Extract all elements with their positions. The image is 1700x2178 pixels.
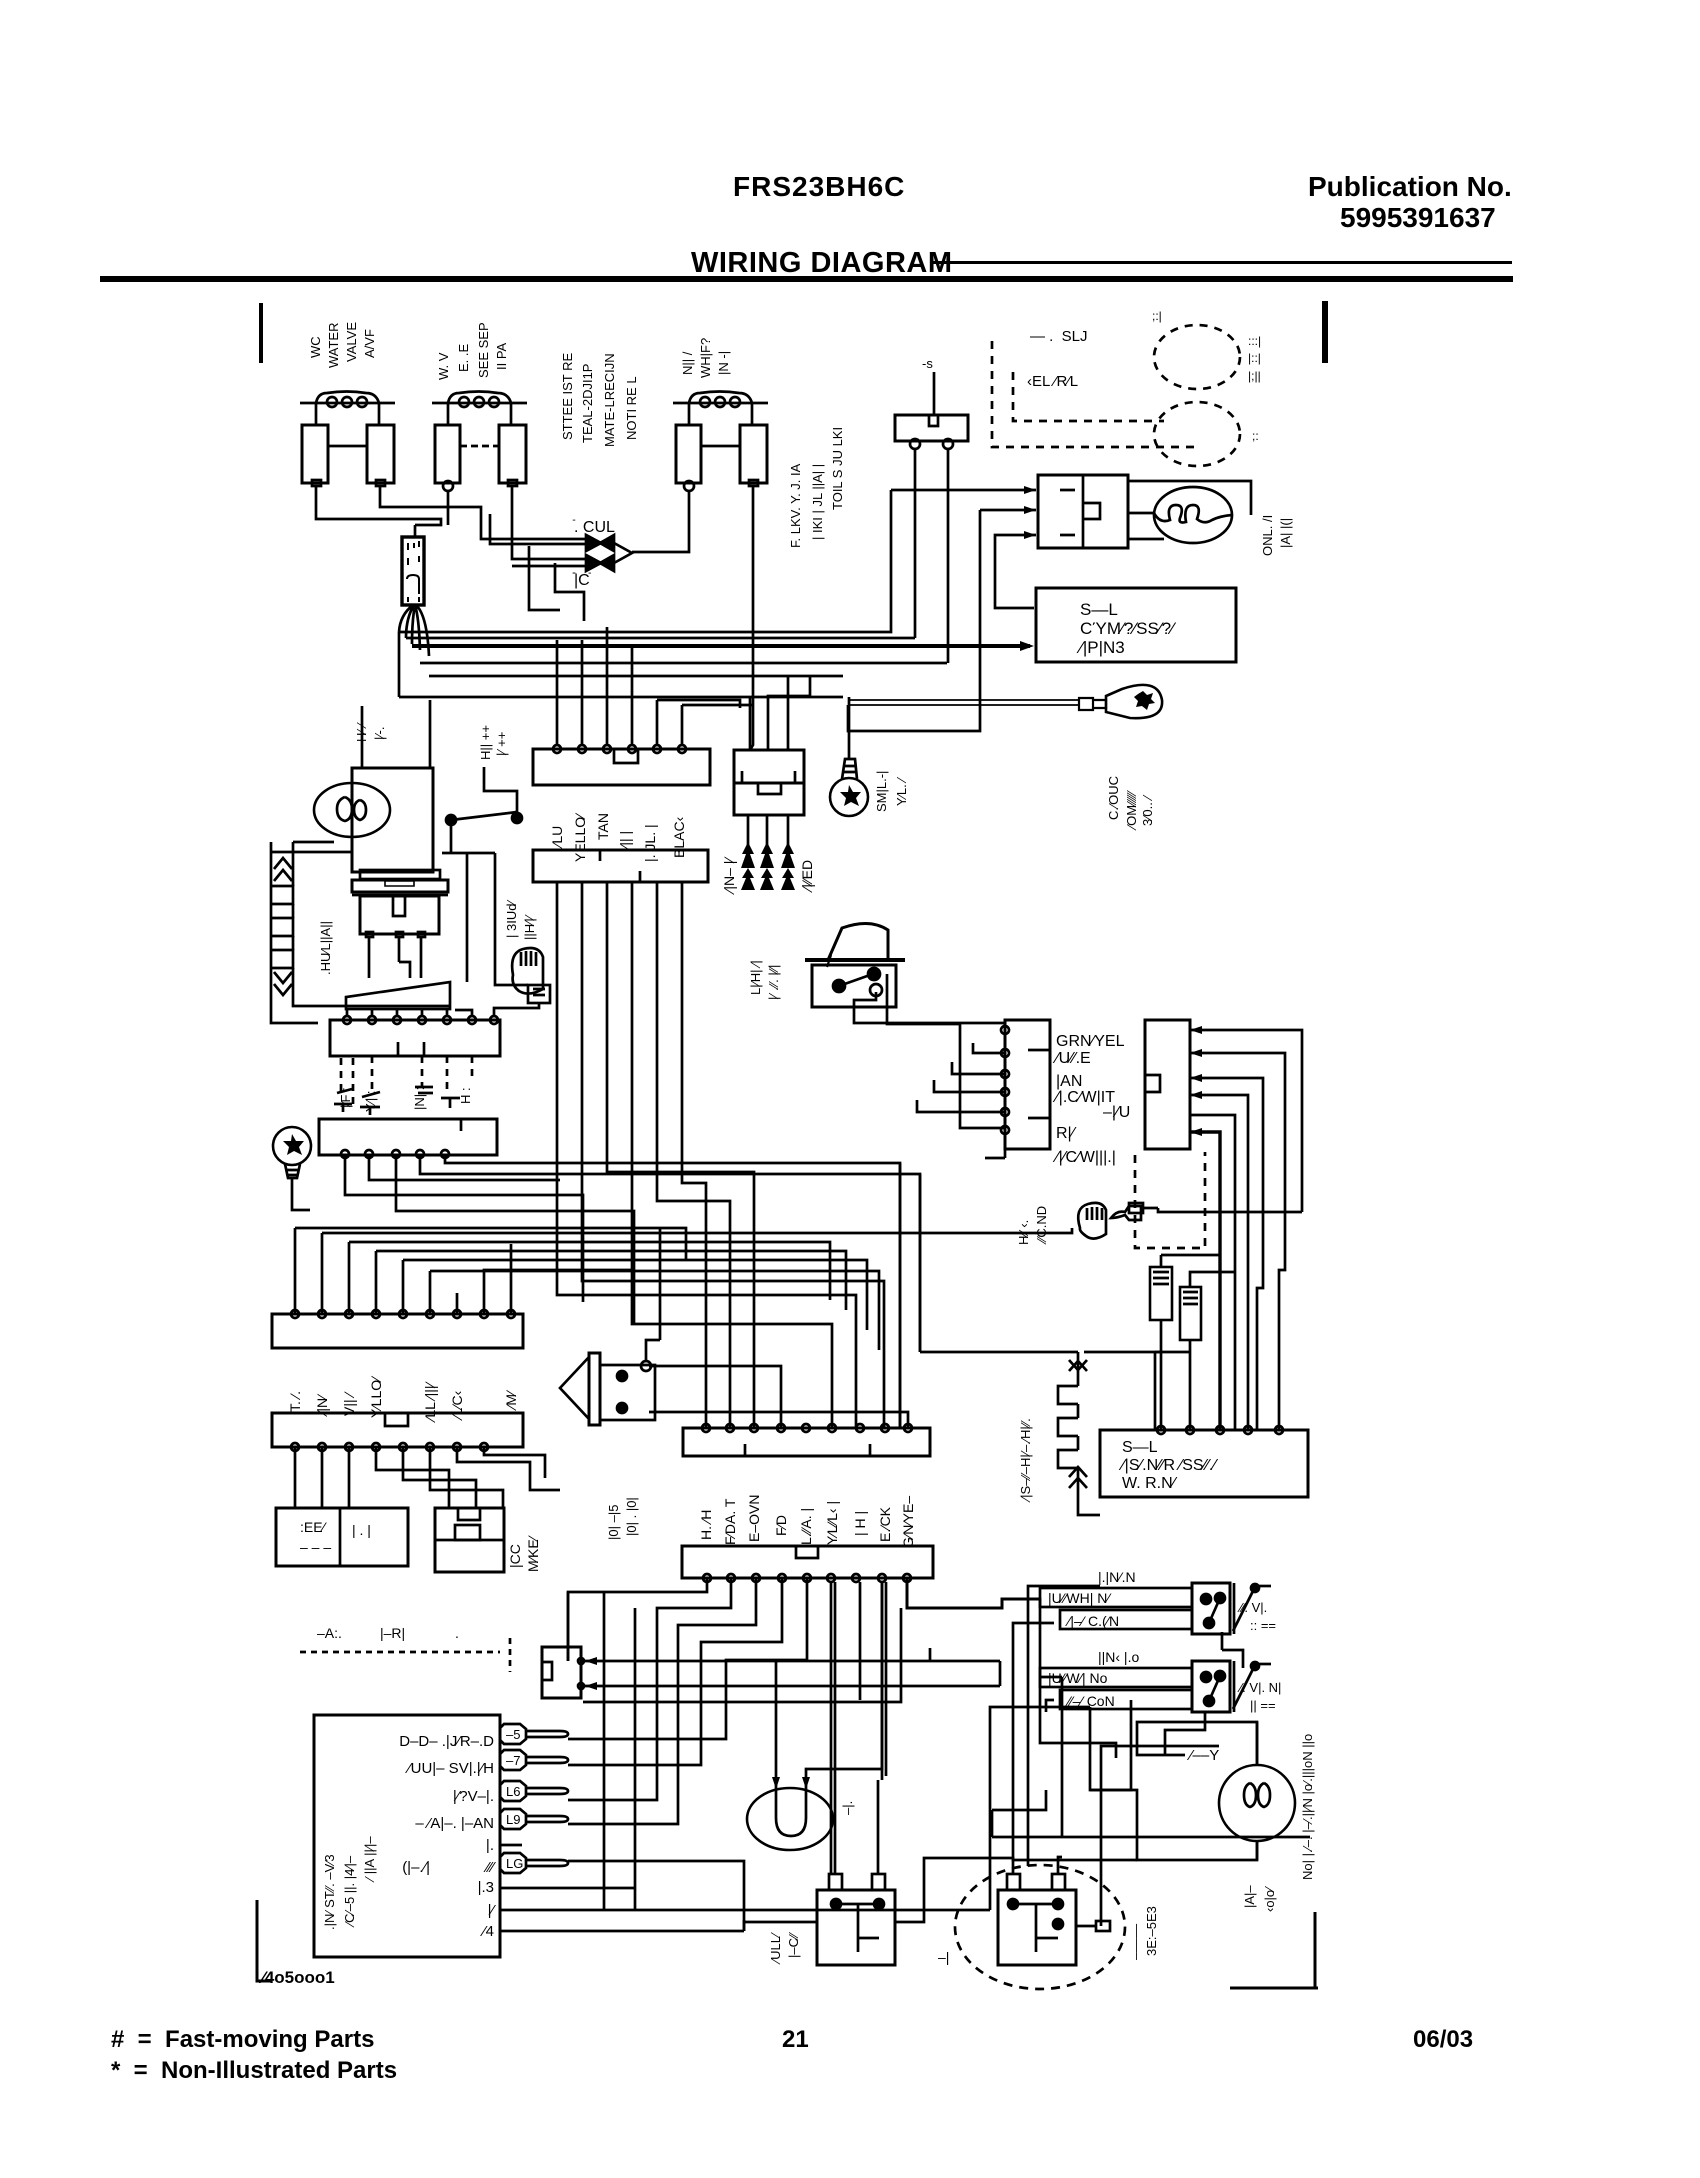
water valve WV2 label bbox=[436, 322, 509, 380]
ice maker wedge to connector bbox=[346, 982, 450, 1009]
svg-text:⁄LU: ⁄LU bbox=[549, 826, 565, 849]
wires into bar3 from mechanism bbox=[347, 1003, 539, 1016]
svg-text:|U⁄⁄WH| N⁄: |U⁄⁄WH| N⁄ bbox=[1048, 1590, 1112, 1606]
svg-text:||H⁄|⁄: ||H⁄|⁄ bbox=[522, 914, 537, 940]
svg-text:‹о|о⁄: ‹о|о⁄ bbox=[1262, 1886, 1277, 1912]
dispenser box top pins bbox=[1157, 1426, 1283, 1434]
svg-text:;:: ;: bbox=[1252, 429, 1259, 443]
svg-text:06/03: 06/03 bbox=[1413, 2026, 1473, 2053]
ground arrows below connector bbox=[741, 815, 795, 890]
harness ground connector MMM 2 bbox=[1078, 1203, 1143, 1239]
grounded 3-pin connector bbox=[734, 676, 810, 815]
rocker switch rotated label bbox=[748, 960, 781, 1000]
dispenser switch assembly 1 labels bbox=[1048, 1569, 1136, 1629]
svg-text:C.⁄OUC: C.⁄OUC bbox=[1106, 776, 1121, 820]
svg-text:.: . bbox=[455, 1625, 459, 1641]
bar5 top pins bbox=[291, 1310, 515, 1318]
see dispenser assembly wiring box bbox=[1100, 1430, 1308, 1497]
bar3 top pins bbox=[343, 1016, 498, 1024]
svg-text:|⁄ ++: |⁄ ++ bbox=[494, 732, 509, 756]
bar7 rotated wire labels bbox=[698, 1495, 916, 1548]
main connector bar 2 bbox=[533, 850, 708, 882]
svg-text:|⁄: |⁄ bbox=[487, 1902, 496, 1919]
svg-text:NOTI RE L: NOTI RE L bbox=[624, 376, 639, 440]
svg-text:–|: –| bbox=[938, 1949, 949, 1965]
wire bar1 pin5 up right bbox=[657, 700, 740, 708]
wires switch rows left ends down bbox=[1013, 1623, 1137, 1860]
dashed harness outline below box B bbox=[1135, 1152, 1205, 1248]
water valve WV3 body bbox=[676, 425, 767, 491]
svg-text:TOIL S JU LKI: TOIL S JU LKI bbox=[830, 427, 845, 510]
wire bar8 pin4 staircase to F7 spade bbox=[583, 1578, 782, 1765]
svg-text:— . SLJ: — . SLJ bbox=[1030, 328, 1088, 345]
long wire under switches bbox=[992, 1790, 1310, 1837]
arrow compressor pin bbox=[1020, 641, 1034, 651]
wire s-box pin1 drop bbox=[914, 449, 917, 638]
corner mark top-right bbox=[1322, 301, 1328, 363]
svg-text:FRS23BH6C: FRS23BH6C bbox=[733, 171, 905, 202]
dispenser switch 2 box bbox=[1192, 1661, 1271, 1712]
relay right lug wire to lamp bbox=[1076, 1746, 1219, 1926]
spade terminal LG bbox=[500, 1853, 568, 1873]
svg-text:D–D– .|J⁄R–.D: D–D– .|J⁄R–.D bbox=[399, 1733, 494, 1750]
svg-text:.HU⁄L||A||: .HU⁄L||A|| bbox=[318, 921, 333, 975]
svg-text:ֿ|ֿCֿ: ֿ|ֿCֿ bbox=[572, 572, 592, 589]
ice maker mechanism plates bbox=[352, 870, 448, 937]
svg-text:BLAC‹: BLAC‹ bbox=[671, 816, 687, 858]
dashed marks under fan label bbox=[300, 1638, 510, 1672]
bar6 bottom pins bbox=[291, 1443, 488, 1451]
relay lug bbox=[1096, 1921, 1110, 1931]
diode D1 bbox=[586, 535, 614, 551]
svg-text:F. LKV. Y. J. IA: F. LKV. Y. J. IA bbox=[788, 463, 803, 548]
wire relay pin3 to compressor box bbox=[995, 535, 1036, 608]
water valve WV3 coil bbox=[673, 392, 768, 426]
svg-text:|0| –|5: |0| –|5 bbox=[606, 1505, 621, 1540]
extra staircase wires bbox=[583, 1592, 901, 1910]
svg-text:CΎM⁄?⁄SS⁄?⁄: CΎM⁄?⁄SS⁄?⁄ bbox=[1080, 619, 1177, 638]
svg-text:⁄|⁄⁄ED: ⁄|⁄⁄ED bbox=[799, 860, 815, 893]
dispenser switch assembly 2 bars bbox=[1040, 1668, 1192, 1709]
svg-text:–5: –5 bbox=[506, 1727, 520, 1742]
wire MMM2 to bus bbox=[1143, 1208, 1302, 1212]
svg-text:(|–.⁄|: (|–.⁄| bbox=[402, 1859, 430, 1876]
svg-text::: ==: :: == bbox=[1250, 1618, 1276, 1633]
freezer lamp housing bbox=[352, 768, 433, 872]
svg-text:⁄|N– |⁄: ⁄|N– |⁄ bbox=[721, 856, 737, 895]
splice fan-out curves bbox=[399, 605, 429, 656]
svg-text:⁄|–⁄ C.(⁄N: ⁄|–⁄ C.(⁄N bbox=[1065, 1613, 1119, 1629]
svg-text:|;||: |;|| bbox=[1248, 369, 1261, 383]
door switch bbox=[442, 767, 528, 985]
small interconnect box (fan) bbox=[542, 1647, 584, 1698]
wires rocker switch to connector A bbox=[854, 992, 1005, 1023]
dashed oval loop 2 bbox=[1154, 402, 1240, 466]
svg-text:| IKI | JL ||A| |: | IKI | JL ||A| | bbox=[810, 464, 825, 540]
svg-text:TEAL-2DJI1P: TEAL-2DJI1P bbox=[580, 364, 595, 443]
svg-text:MATE-LRECIJN: MATE-LRECIJN bbox=[602, 353, 617, 447]
svg-text:⁄|⁄C⁄W|||.|: ⁄|⁄C⁄W|||.| bbox=[1052, 1149, 1116, 1166]
see door wiring box bbox=[276, 1508, 408, 1566]
wire heater top from bus bbox=[1035, 1351, 1078, 1354]
svg-text:– ⁄A|–. |–AN: – ⁄A|–. |–AN bbox=[415, 1815, 494, 1832]
bar8 bottom pins bbox=[703, 1574, 911, 1582]
timer plain terminals bbox=[500, 1845, 990, 1931]
ice maker rotated label bbox=[507, 1534, 541, 1572]
corner mark bottom-right bbox=[1230, 1912, 1318, 1988]
svg-text:L|⁄H| ⁄|: L|⁄H| ⁄| bbox=[748, 960, 763, 995]
wire valve2 left pin down bbox=[447, 491, 450, 525]
switch 1 dashed label bbox=[1237, 1600, 1276, 1633]
splice block (dashed inner) bbox=[402, 537, 424, 605]
wire screw lamp riser bbox=[848, 697, 851, 759]
svg-text:|⁄?V–|.: |⁄?V–|. bbox=[453, 1788, 494, 1805]
connector bar 3 (ice maker harness) bbox=[330, 1020, 500, 1056]
wire from switch1 box bottom bbox=[1222, 1632, 1243, 1668]
svg-text:VALVE: VALVE bbox=[344, 322, 359, 362]
spade tip connector wires bbox=[568, 1739, 583, 1861]
svg-text:;:|: ;:| bbox=[1152, 309, 1162, 323]
svg-text:|0| . |0|: |0| . |0| bbox=[624, 1497, 639, 1536]
wire L2 long run right bbox=[990, 1707, 1090, 1910]
svg-text:⁄M⁄: ⁄M⁄ bbox=[503, 1389, 519, 1411]
svg-text:H⁄-⁄: H⁄-⁄ bbox=[354, 722, 369, 742]
svg-text:|.: |. bbox=[486, 1837, 494, 1854]
bar3 dashed labels below bbox=[338, 1087, 473, 1112]
ice maker connector box bbox=[435, 1508, 504, 1572]
svg-text:|–R|: |–R| bbox=[380, 1625, 405, 1641]
svg-text:⁄C⁄–5 ||. |4⁄|–: ⁄C⁄–5 ||. |4⁄|– bbox=[342, 1855, 357, 1928]
arrows into motor bbox=[772, 1777, 810, 1789]
wire valve3 right pin long drop bbox=[750, 486, 753, 750]
evap fan motor bbox=[747, 1788, 833, 1850]
svg-text:⁄⁄C.ND: ⁄⁄C.ND bbox=[1034, 1206, 1049, 1245]
svg-text:|A|–: |A|– bbox=[1242, 1885, 1257, 1908]
see compressor wiring text bbox=[1076, 600, 1177, 657]
small switch box C bbox=[1150, 1267, 1172, 1320]
svg-text:|CC: |CC bbox=[507, 1544, 523, 1568]
svg-text:A/VF: A/VF bbox=[362, 329, 377, 358]
dashed stubs below bar3 bbox=[341, 1056, 472, 1105]
svg-text:–––––: ––––– bbox=[1128, 1923, 1143, 1960]
svg-text:S—L: S—L bbox=[1080, 600, 1118, 619]
wire stub box A bottom left bbox=[985, 1149, 1005, 1158]
svg-text:R|⁄: R|⁄ bbox=[1056, 1125, 1077, 1142]
spade terminal F5 bbox=[500, 1724, 568, 1744]
svg-text:TAN: TAN bbox=[595, 813, 611, 840]
svg-text:L9: L9 bbox=[506, 1812, 520, 1827]
svg-text:⁄4о5ооо1: ⁄4о5ооо1 bbox=[258, 1968, 335, 1987]
wire switch2 box down bbox=[1165, 1712, 1205, 1755]
wire bar8 pin9 to switch assembly 1 bbox=[907, 1578, 1040, 1608]
main connector bar 1 bbox=[533, 749, 710, 785]
dispenser heater zigzag bbox=[1058, 1352, 1087, 1502]
connector bar 5 bbox=[272, 1314, 523, 1348]
rocker switch (light switch) bbox=[805, 923, 905, 1007]
water fill valve assembly bbox=[560, 1340, 660, 1425]
box B right wires going right then down bbox=[1190, 1030, 1302, 1430]
bar2 inner ticks bbox=[600, 850, 640, 882]
svg-text:⁄ ||A ||⁄|–: ⁄ ||A ||⁄|– bbox=[362, 1836, 377, 1883]
left riser column bbox=[567, 1592, 570, 1661]
rotated labels at ground arrows bbox=[721, 856, 815, 895]
svg-text:H. ⁄H: H. ⁄H bbox=[698, 1510, 714, 1540]
wire timer L4 to evap riser bbox=[743, 1920, 746, 1931]
vertical feeders through middle right bbox=[900, 1163, 1035, 1428]
note text block rotated (install instructions) bbox=[560, 353, 639, 447]
wires into defrost terminals bbox=[831, 1582, 886, 1874]
arrows into box B bbox=[1190, 1026, 1202, 1136]
svg-text:3E:–5E3: 3E:–5E3 bbox=[1144, 1906, 1159, 1956]
diode D2 bbox=[586, 555, 614, 571]
svg-text:|.|N⁄.N: |.|N⁄.N bbox=[1098, 1569, 1136, 1585]
svg-text:⁄UU|– SV|.|⁄H: ⁄UU|– SV|.|⁄H bbox=[404, 1760, 494, 1777]
wire timer L3 stub riser bbox=[634, 1888, 637, 1910]
svg-text:|⁄ .⁄⁄. |⁄⁄|: |⁄ .⁄⁄. |⁄⁄| bbox=[766, 965, 781, 1000]
bar4 top tick bbox=[460, 1120, 463, 1131]
wires below boxes C and D bbox=[1084, 1255, 1235, 1430]
label BLU bbox=[1027, 328, 1088, 390]
svg-text:T. ⁄.: T. ⁄. bbox=[287, 1391, 303, 1412]
bar4 bottom pins bbox=[341, 1150, 449, 1158]
svg-text:–7: –7 bbox=[506, 1753, 520, 1768]
svg-text:||N‹ |.о: ||N‹ |.о bbox=[1098, 1649, 1139, 1665]
svg-text:E.⁄CK: E.⁄CK bbox=[877, 1506, 893, 1542]
svg-text:H⁄⁄ ‹.: H⁄⁄ ‹. bbox=[1016, 1220, 1031, 1245]
header thin underline right bbox=[930, 261, 1512, 264]
svg-text:⁄LL ⁄|||⁄: ⁄LL ⁄|||⁄ bbox=[422, 1380, 438, 1423]
water valve WV1 label bbox=[308, 322, 377, 368]
wire bar1 pin6 bend bbox=[682, 704, 753, 707]
svg-text:|N| :: |N| : bbox=[412, 1087, 427, 1110]
connector bar 4 bbox=[319, 1119, 497, 1155]
svg-text:E–OVN: E–OVN bbox=[746, 1495, 762, 1542]
svg-text:⁄4: ⁄4 bbox=[479, 1923, 494, 1940]
svg-text:– – –: – – – bbox=[300, 1539, 331, 1555]
svg-text:ֿ. CUL: ֿ. CUL bbox=[572, 519, 615, 536]
svg-text:M⁄KE⁄: M⁄KE⁄ bbox=[525, 1534, 541, 1572]
lamp rotated label bbox=[1242, 1885, 1277, 1912]
svg-text:SM|L.-|: SM|L.-| bbox=[874, 771, 889, 812]
lamp holder bracket bbox=[1128, 481, 1251, 539]
svg-text:|⁄-.: |⁄-. bbox=[372, 727, 387, 741]
svg-text:Nо| |.⁄–. |–⁄.||⁄N |о⁄.|||оN |: Nо| |.⁄–. |–⁄.||⁄N |о⁄.|||оN ||о bbox=[1300, 1734, 1315, 1880]
svg-text:–|⁄U: –|⁄U bbox=[1103, 1104, 1130, 1121]
svg-text:W. V: W. V bbox=[436, 352, 451, 380]
svg-text:SEE SEP: SEE SEP bbox=[476, 322, 491, 378]
svg-text:H :: H : bbox=[458, 1087, 473, 1104]
lamp terminals bbox=[1256, 1722, 1259, 1860]
wire into relay pin2 bbox=[980, 509, 1036, 512]
rotated label right of lamp bbox=[1260, 515, 1293, 556]
cross bus wires center bbox=[457, 882, 884, 1428]
wires mech to wedge bbox=[369, 937, 421, 978]
wire defrost to relay: right goes up over bbox=[895, 1858, 1013, 1922]
svg-text:| . |: | . | bbox=[352, 1522, 371, 1538]
svg-text::::|: :::| bbox=[1248, 334, 1261, 348]
svg-text:⁄|| |: ⁄|| | bbox=[617, 831, 633, 851]
svg-text:|| ==: || == bbox=[1250, 1698, 1276, 1713]
water valve WV1 body bbox=[302, 425, 394, 486]
wires into motor top bbox=[776, 1582, 882, 1789]
svg-text:II PA: II PA bbox=[494, 342, 509, 370]
svg-text:⁄OM⁄⁄⁄⁄⁄⁄: ⁄OM⁄⁄⁄⁄⁄⁄ bbox=[1124, 790, 1139, 831]
upper long bus lines to right section bbox=[399, 490, 891, 632]
dashed oval loop 1 bbox=[1154, 325, 1240, 389]
harness ground rotated label bbox=[1016, 1206, 1049, 1245]
svg-text:5995391637: 5995391637 bbox=[1340, 202, 1496, 233]
svg-text:F⁄D: F⁄D bbox=[773, 1515, 789, 1536]
wire lamp bottom to heater loop bbox=[271, 836, 352, 852]
wire small box lower to defrost riser bbox=[930, 1648, 1000, 1686]
compressor ground lug bbox=[1079, 685, 1162, 718]
svg-text:WH|F?: WH|F? bbox=[698, 338, 713, 378]
svg-text:S—L: S—L bbox=[1122, 1439, 1158, 1456]
corner mark bottom-left bbox=[257, 1900, 271, 1981]
svg-text:* = Non-Illustrated Parts: * = Non-Illustrated Parts bbox=[111, 2057, 397, 2084]
svg-text:-s: -s bbox=[922, 356, 933, 371]
svg-text:WC: WC bbox=[308, 336, 323, 358]
connector bar 6 bbox=[272, 1413, 523, 1447]
timer terminal labels bbox=[399, 1733, 496, 1940]
run capacitor lamp bbox=[1154, 487, 1232, 543]
box A wire labels bbox=[1052, 1033, 1130, 1166]
svg-text:Publication No.: Publication No. bbox=[1308, 171, 1512, 202]
svg-text:| H |: | H | bbox=[852, 1511, 868, 1536]
defrost rotated label bbox=[768, 1932, 801, 1965]
connector bar 8 bbox=[682, 1546, 933, 1578]
wire valve1 right pin jog to diode feed bbox=[380, 486, 586, 544]
see compressor wiring box bbox=[1036, 588, 1236, 662]
svg-text:|A| |(|: |A| |(| bbox=[1278, 518, 1293, 548]
svg-text:STTEE IST RE: STTEE IST RE bbox=[560, 353, 575, 440]
svg-text:# = Fast-moving Parts: # = Fast-moving Parts bbox=[111, 2026, 374, 2053]
freezer fan heater loop bbox=[271, 842, 449, 1023]
timer box rotated label bbox=[322, 1836, 377, 1930]
wire bar8 pin1 staircase left bbox=[568, 1578, 707, 1661]
header rule bbox=[100, 276, 1513, 282]
svg-text:L.⁄⁄A. |: L.⁄⁄A. | bbox=[798, 1508, 814, 1545]
svg-text:| 3IUd⁄: | 3IUd⁄ bbox=[504, 900, 519, 938]
svg-text:⁄⁄. V|.: ⁄⁄. V|. bbox=[1237, 1600, 1267, 1615]
svg-text:3⁄0.. ⁄: 3⁄0.. ⁄ bbox=[1140, 795, 1155, 826]
bar2 wire drops below bbox=[649, 1366, 908, 1428]
wires bar6 to lower boxes bbox=[295, 1447, 560, 1508]
s-connector box bbox=[895, 356, 968, 449]
wire bar8 pin5 staircase to F5 spade bbox=[583, 1578, 807, 1739]
small switch box D bbox=[1180, 1287, 1201, 1340]
wire lamp bottom left bbox=[1090, 1707, 1257, 1860]
dashed text marks right of ovals bbox=[1248, 334, 1261, 443]
svg-text:|::|: |::| bbox=[1248, 351, 1261, 365]
svg-text:W. R.N⁄: W. R.N⁄ bbox=[1122, 1475, 1178, 1492]
svg-text:|AN: |AN bbox=[1056, 1073, 1082, 1090]
svg-text:|.3: |.3 bbox=[478, 1879, 494, 1896]
arrows at small box bbox=[585, 1657, 597, 1690]
wire s-box pin2 drop bbox=[947, 449, 950, 663]
note text block rotated (right of valve 3) bbox=[788, 427, 845, 548]
compressor ground rotated label bbox=[1106, 776, 1155, 831]
svg-text:–|.: –|. bbox=[840, 1801, 855, 1815]
wire valve1 left pin to bus bbox=[316, 486, 441, 525]
wire switch2 grey row stub bbox=[1046, 1700, 1054, 1712]
svg-text:Y⁄L⁄⁄L‹ |: Y⁄L⁄⁄L‹ | bbox=[824, 1501, 840, 1545]
svg-text:|–C⁄⁄: |–C⁄⁄ bbox=[786, 1932, 801, 1958]
diode output apex bbox=[614, 543, 632, 563]
freezer lamp bbox=[314, 783, 390, 837]
bar1 top pins bbox=[553, 745, 686, 753]
screw base lamp (small bulb) bbox=[830, 759, 868, 816]
svg-text:‹EL ⁄R⁄L: ‹EL ⁄R⁄L bbox=[1027, 373, 1078, 390]
switch 2 dashed label bbox=[1237, 1680, 1281, 1713]
water valve WV2 body bbox=[435, 425, 526, 491]
spade terminal L9 bbox=[500, 1809, 568, 1829]
box A left pins bbox=[1001, 1026, 1009, 1134]
spade terminal L6 bbox=[500, 1781, 568, 1801]
bar5 rotated wire labels bbox=[287, 1375, 519, 1423]
wire into relay pin1 bbox=[891, 489, 1036, 492]
dispenser switch assembly 1 bars bbox=[1040, 1588, 1192, 1629]
dispenser box text bbox=[1118, 1439, 1218, 1492]
rotated label freezer fan bbox=[318, 921, 333, 975]
svg-text:⁄––Y: ⁄––Y bbox=[1186, 1747, 1219, 1764]
wires housing top up bbox=[362, 700, 430, 768]
connector bar 7 bbox=[683, 1428, 930, 1456]
wire valve2 right pin to diode feed bbox=[512, 486, 586, 566]
svg-text:21: 21 bbox=[782, 2026, 809, 2053]
svg-text:F⁄DA. T: F⁄DA. T bbox=[722, 1498, 738, 1545]
svg-text:LG: LG bbox=[506, 1856, 523, 1871]
svg-text:|. JL. |: |. JL. | bbox=[642, 824, 658, 862]
wire bar8 pin3 staircase to L9 spade bbox=[583, 1578, 756, 1824]
corner mark top-left bbox=[259, 303, 263, 363]
wire grey to lamp top bbox=[1137, 1722, 1257, 1765]
connector box B bbox=[1145, 1020, 1190, 1149]
wires into relay terminal 2 from above bbox=[1058, 1857, 1062, 1874]
connector box A bbox=[1005, 1020, 1050, 1149]
svg-text:N|| /: N|| / bbox=[680, 351, 695, 375]
svg-text:L6: L6 bbox=[506, 1784, 520, 1799]
svg-text:⁄. V|. N|: ⁄. V|. N| bbox=[1237, 1680, 1281, 1695]
svg-text:.|N⁄ ST⁄⁄. –V⁄3: .|N⁄ ST⁄⁄. –V⁄3 bbox=[322, 1854, 337, 1930]
wires into dispenser box top bbox=[1155, 1352, 1161, 1430]
wire branch into splice block bbox=[414, 525, 417, 537]
relay rotated label bbox=[1128, 1906, 1159, 1960]
wire loop to diode lower feed bbox=[529, 546, 584, 621]
defrost timer box bbox=[314, 1715, 500, 1957]
heater rotated label bbox=[1018, 1418, 1033, 1503]
wire defrost left from LG bbox=[744, 1922, 817, 1931]
thermal fuse symbols below bar3 bbox=[334, 1087, 460, 1115]
rotated label air duct bbox=[478, 725, 509, 760]
svg-text:⁄|S–⁄⁄–H|⁄–.⁄H|⁄⁄.: ⁄|S–⁄⁄–H|⁄–.⁄H|⁄⁄. bbox=[1018, 1418, 1033, 1503]
rotated label HFA above lamp bbox=[354, 722, 387, 742]
svg-text:⁄|P|N3: ⁄|P|N3 bbox=[1076, 638, 1125, 657]
box A inner ticks bbox=[1028, 1050, 1050, 1118]
defrost thermostat box bbox=[817, 1874, 895, 1965]
svg-text:⁄|S⁄.N⁄⁄R ⁄SS⁄⁄.⁄: ⁄|S⁄.N⁄⁄R ⁄SS⁄⁄.⁄ bbox=[1118, 1457, 1218, 1474]
wire riser to relay pin2 feed bbox=[848, 510, 980, 731]
rotated label SMALL YEL bbox=[874, 771, 909, 812]
harness ground connector MMM (left) bbox=[512, 948, 550, 1003]
staircase bus wires bar4 to right columns bbox=[345, 1154, 920, 1428]
relay box in oval bbox=[998, 1874, 1076, 1965]
bar7 inner tick bbox=[745, 1444, 870, 1456]
bar7 top pins bbox=[702, 1424, 912, 1432]
wire valve3 left pin from diode output bbox=[632, 491, 689, 552]
spade terminal F7 bbox=[500, 1750, 568, 1770]
wire LG spade to defrost bbox=[583, 1861, 744, 1922]
